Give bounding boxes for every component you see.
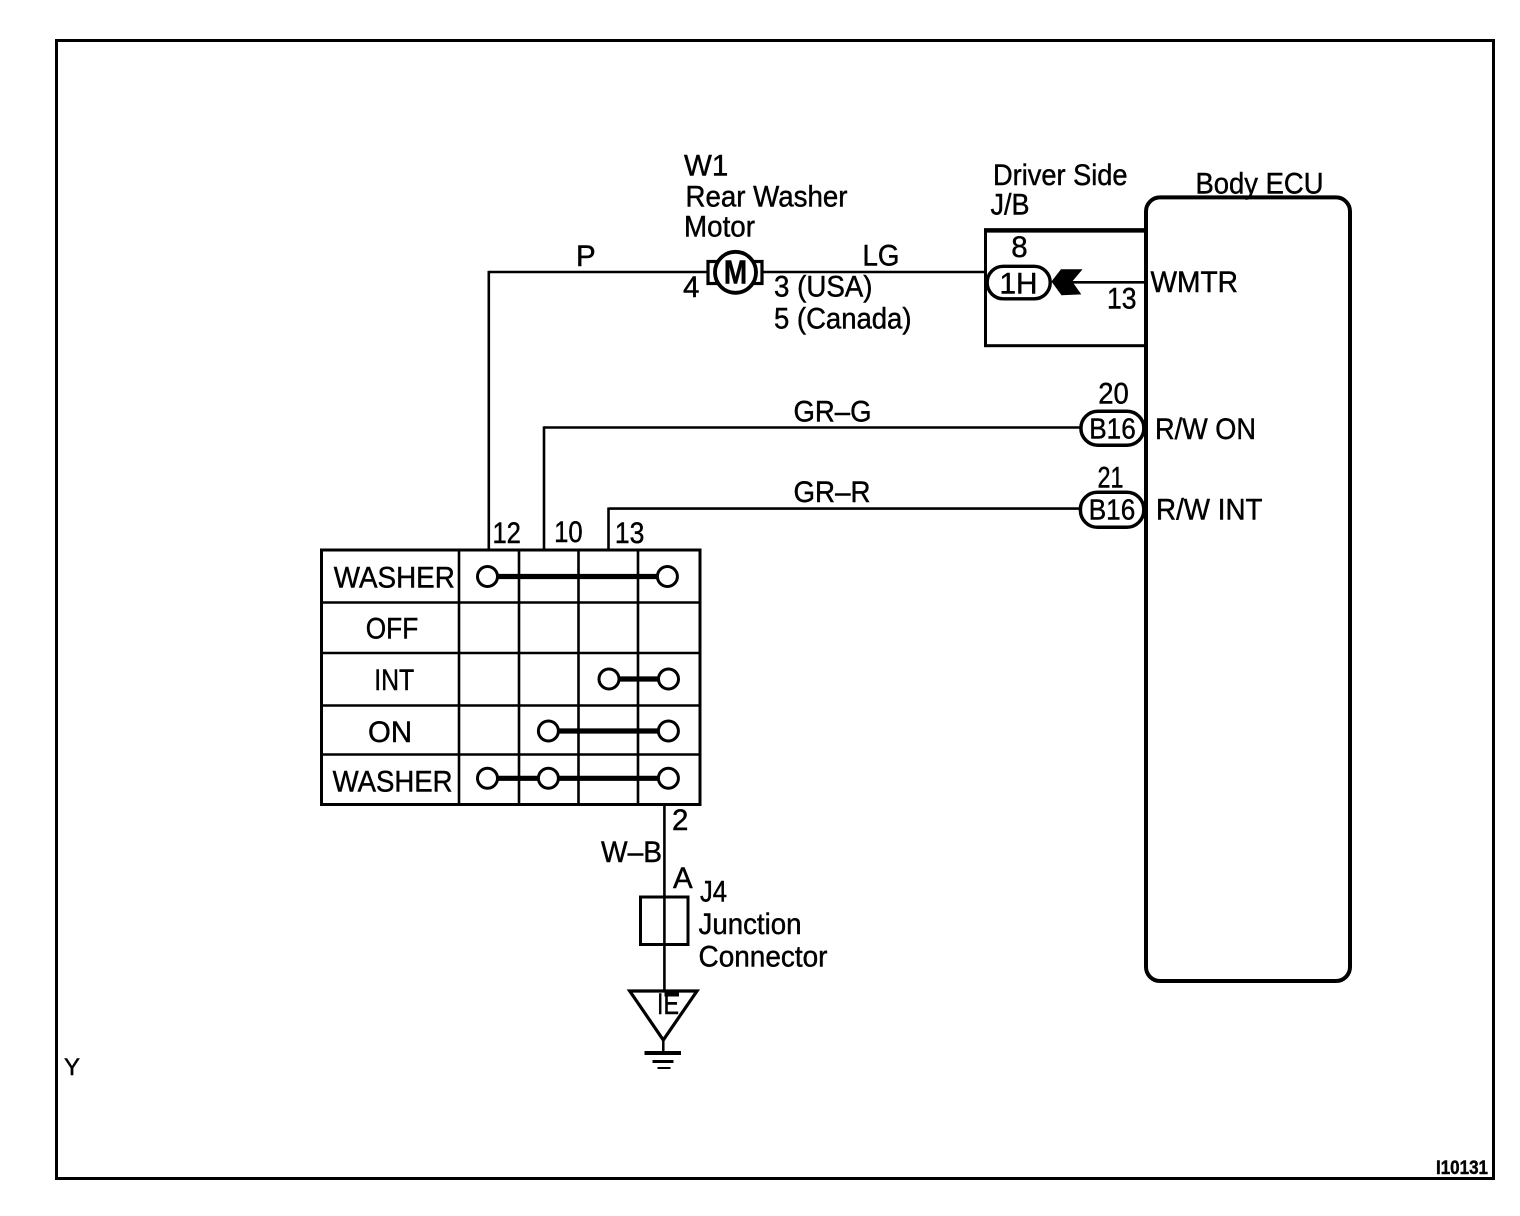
svg-text:A: A	[673, 862, 693, 895]
junction connector J4 box	[641, 897, 689, 945]
svg-text:J4: J4	[700, 876, 727, 909]
svg-text:M: M	[724, 254, 748, 291]
switch contacts row INT	[599, 669, 679, 689]
switch table grid	[322, 550, 701, 805]
svg-text:Motor: Motor	[684, 211, 755, 244]
svg-text:13: 13	[615, 517, 645, 550]
svg-text:12: 12	[492, 517, 521, 550]
Body ECU box	[1146, 197, 1350, 981]
svg-text:2: 2	[672, 804, 688, 837]
ground symbol	[662, 1040, 665, 1052]
motor W1 symbol	[708, 252, 762, 293]
svg-text:GR–R: GR–R	[794, 476, 871, 509]
svg-text:Driver Side: Driver Side	[993, 159, 1128, 192]
wire P horizontal	[489, 271, 708, 274]
svg-text:10: 10	[554, 516, 583, 549]
svg-text:WASHER: WASHER	[334, 562, 455, 595]
wire GR-G	[544, 426, 1082, 429]
svg-text:INT: INT	[374, 664, 414, 697]
svg-text:WASHER: WASHER	[333, 766, 453, 799]
connector B16 pin 21	[1080, 492, 1143, 527]
svg-text:1H: 1H	[1000, 268, 1038, 301]
svg-text:GR–G: GR–G	[794, 396, 872, 429]
connector B16 pin 20	[1081, 411, 1144, 445]
wire P vertical to pin 12	[487, 271, 490, 550]
black mark on triangle top	[665, 990, 680, 997]
svg-text:LG: LG	[863, 240, 900, 273]
svg-text:ON: ON	[368, 716, 412, 749]
svg-text:4: 4	[683, 271, 699, 304]
switch contacts row WASHER bottom	[478, 768, 679, 788]
svg-text:B16: B16	[1089, 414, 1136, 446]
svg-text:P: P	[576, 240, 596, 273]
svg-text:WMTR: WMTR	[1151, 266, 1239, 299]
svg-text:R/W INT: R/W INT	[1156, 494, 1263, 527]
svg-text:OFF: OFF	[366, 613, 419, 646]
switch contacts row WASHER top	[478, 567, 678, 587]
wire W-B from pin 2	[663, 805, 666, 992]
svg-text:8: 8	[1011, 231, 1027, 264]
arrowhead	[1051, 269, 1082, 295]
Driver Side J/B box	[986, 230, 1147, 345]
svg-text:W–B: W–B	[601, 836, 662, 869]
svg-text:IE: IE	[657, 988, 679, 1021]
svg-text:3 (USA): 3 (USA)	[774, 271, 873, 304]
wire LG	[762, 271, 987, 274]
svg-text:Rear Washer: Rear Washer	[686, 181, 848, 214]
ground IE triangle	[630, 991, 697, 1040]
svg-text:J/B: J/B	[991, 189, 1030, 222]
svg-text:20: 20	[1098, 378, 1129, 411]
svg-text:W1: W1	[684, 150, 728, 183]
svg-text:5 (Canada): 5 (Canada)	[774, 303, 912, 336]
svg-text:Connector: Connector	[699, 941, 828, 974]
svg-text:I10131: I10131	[1436, 1158, 1488, 1179]
switch contacts row ON	[538, 721, 678, 741]
wire GR-R	[609, 507, 1083, 510]
connector 1H	[987, 266, 1050, 299]
svg-text:R/W ON: R/W ON	[1155, 413, 1256, 446]
svg-text:13: 13	[1107, 283, 1137, 316]
svg-text:Y: Y	[64, 1054, 80, 1081]
svg-text:21: 21	[1098, 462, 1124, 495]
svg-text:B16: B16	[1089, 495, 1136, 527]
svg-text:Junction: Junction	[699, 908, 802, 941]
wire arrow to WMTR	[1072, 281, 1146, 284]
